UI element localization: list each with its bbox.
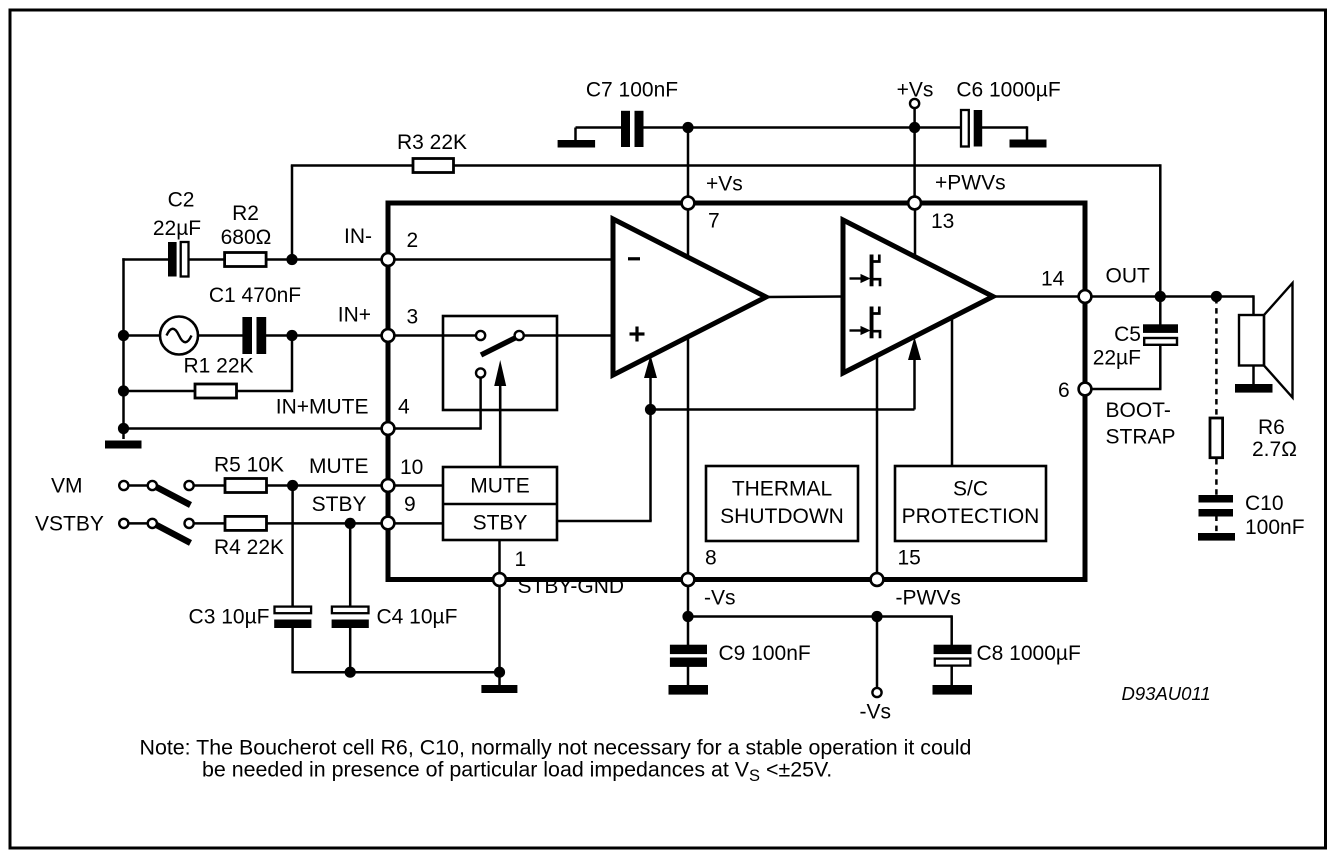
junction -Vs terminal node <box>871 611 882 622</box>
resistor R2 <box>225 253 267 267</box>
label C1 value <box>209 284 301 307</box>
junction MUTE node <box>287 480 298 491</box>
label IN- <box>344 225 372 248</box>
wire +Vs rail (C7 to C6) <box>643 126 963 129</box>
svg-text:Note: The Boucherot cell R6, C: Note: The Boucherot cell R6, C10, normal… <box>140 735 972 759</box>
speaker <box>1239 283 1293 398</box>
wire speaker to ground <box>1252 365 1255 385</box>
label R4 value <box>214 536 284 559</box>
svg-text:BOOT-: BOOT- <box>1106 399 1171 422</box>
svg-text:IN-: IN- <box>344 225 372 248</box>
capacitor C10 100nF <box>1199 495 1234 517</box>
wire dashed OUT to R6 <box>1215 298 1218 417</box>
wire power stage to S/C protection box <box>951 310 954 466</box>
capacitor C5 22uF <box>1143 324 1178 345</box>
ground C7 <box>558 140 596 148</box>
pin 6 <box>1079 383 1092 396</box>
svg-text:C10: C10 <box>1245 492 1284 515</box>
svg-text:STBY-GND: STBY-GND <box>518 575 625 598</box>
svg-text:SHUTDOWN: SHUTDOWN <box>720 505 844 528</box>
wire input bus vertical <box>122 258 125 439</box>
ground C8 <box>933 685 973 695</box>
svg-text:4: 4 <box>398 396 410 419</box>
resistor R1 <box>195 384 237 398</box>
terminal -Vs bottom <box>872 688 881 697</box>
svg-text:R5 10K: R5 10K <box>214 454 284 477</box>
label +PWVs <box>935 172 1006 195</box>
svg-text:C2: C2 <box>168 189 195 212</box>
wire VSTBY switch link <box>128 522 149 525</box>
pin 7 <box>682 197 695 210</box>
junction OUT boucherot <box>1211 291 1222 302</box>
svg-text:C3 10µF: C3 10µF <box>189 606 270 629</box>
wire C5 bootstrap branch <box>1085 343 1162 389</box>
label pin 7 <box>708 210 720 233</box>
capacitor C7 100nF <box>621 111 644 147</box>
label pin 2 <box>407 229 419 252</box>
label C9 value <box>719 642 811 665</box>
pin 1 <box>493 573 506 586</box>
IC U1 outline <box>388 203 1085 580</box>
junction bias node <box>645 404 656 415</box>
wire bus to generator <box>124 334 162 337</box>
label IN+MUTE <box>276 396 369 419</box>
svg-text:14: 14 <box>1041 268 1065 291</box>
label R3 value <box>397 131 467 154</box>
label -Vs terminal <box>860 701 892 724</box>
block THERMAL SHUTDOWN <box>706 466 858 541</box>
wire pin 8 to C9 <box>687 580 690 646</box>
svg-text:+Vs: +Vs <box>897 79 934 102</box>
svg-text:C7 100nF: C7 100nF <box>586 79 678 102</box>
switch VSTBY contacts <box>119 519 193 528</box>
wire C8 to ground <box>950 666 953 687</box>
svg-text:2.7Ω: 2.7Ω <box>1252 438 1297 461</box>
wire pin 7 to pin 8 vertical <box>687 128 690 580</box>
wire pin 13 into power stage <box>914 204 917 291</box>
junction IN- node <box>286 254 297 265</box>
svg-text:22µF: 22µF <box>1093 347 1141 370</box>
wire C6 to its ground <box>981 126 1027 141</box>
arrow bias into op-amp U1 <box>644 355 657 410</box>
junction C4 ground <box>345 667 356 678</box>
svg-text:8: 8 <box>705 547 717 570</box>
junction STBY node <box>345 518 356 529</box>
svg-text:STBY: STBY <box>473 512 528 535</box>
label VSTBY <box>35 513 104 536</box>
junction -Vs C9 <box>682 611 693 622</box>
svg-text:VSTBY: VSTBY <box>35 513 104 536</box>
capacitor C1 470nF <box>242 317 266 354</box>
junction IN+ node <box>286 330 297 341</box>
wire dashed C10 to ground <box>1215 516 1218 535</box>
label pin 14 <box>1041 268 1065 291</box>
svg-text:MUTE: MUTE <box>470 474 530 497</box>
pin 4 <box>382 422 395 435</box>
svg-text:MUTE: MUTE <box>309 455 369 478</box>
label pin 8 <box>705 547 717 570</box>
svg-text:S/C: S/C <box>953 478 988 501</box>
pin 10 <box>382 479 395 492</box>
switch VM contacts <box>119 481 193 490</box>
label S/C PROTECTION <box>902 478 1040 529</box>
svg-text:C4 10µF: C4 10µF <box>377 606 458 629</box>
capacitor C2 22uF <box>168 242 189 277</box>
label C7 value <box>586 79 678 102</box>
label pin 13 <box>931 210 954 233</box>
svg-text:R4 22K: R4 22K <box>214 536 284 559</box>
op-amp U1 input stage <box>613 219 766 375</box>
ground input <box>105 441 142 449</box>
label +Vs terminal <box>897 79 934 102</box>
wire bias to STBY box <box>557 408 652 521</box>
label C6 value <box>956 79 1060 102</box>
wire R3 to OUT node <box>454 164 1160 325</box>
svg-text:C8 1000µF: C8 1000µF <box>977 642 1081 665</box>
wire STBY box to pin 1 to ground <box>498 540 501 686</box>
svg-text:C5: C5 <box>1114 323 1141 346</box>
wire R5 to pin 10 <box>267 484 444 487</box>
label C2 value <box>153 189 201 241</box>
wire C7 ground to C7 left plate <box>576 128 623 141</box>
pin 3 <box>382 329 395 342</box>
svg-text:1: 1 <box>515 548 527 571</box>
junction +Vs C7 <box>682 122 693 133</box>
block S/C PROTECTION <box>895 466 1046 541</box>
wire MUTE box to switch arrow <box>499 388 502 467</box>
ground speaker <box>1235 384 1273 393</box>
svg-text:+PWVs: +PWVs <box>935 172 1006 195</box>
label STBY-GND <box>518 575 625 598</box>
label C10 value <box>1245 492 1305 539</box>
mute switch contact right <box>515 331 524 340</box>
pin 15 <box>871 573 884 586</box>
wire generator to C1 <box>198 334 243 337</box>
arrow mute drive <box>494 360 506 467</box>
svg-text:STRAP: STRAP <box>1106 426 1176 449</box>
op-amp U1 minus mark <box>628 257 640 260</box>
svg-text:-Vs: -Vs <box>704 587 736 610</box>
svg-text:13: 13 <box>931 210 954 233</box>
svg-text:C9 100nF: C9 100nF <box>719 642 811 665</box>
wire +Vs terminal to pin 13 <box>913 107 916 206</box>
wire R2 to pin 2 to op-amp U1 minus input <box>267 258 615 261</box>
wire C4 bottom <box>349 627 352 673</box>
junction bus generator <box>118 330 129 341</box>
note text <box>140 735 972 785</box>
ground C10 <box>1198 533 1235 541</box>
wire C9 to ground <box>687 666 690 687</box>
wire bus to C2 <box>122 258 168 261</box>
label C8 value <box>977 642 1081 665</box>
pin 9 <box>382 517 395 530</box>
switch VM lever <box>154 486 191 505</box>
label pin 1 <box>515 548 527 571</box>
wire VM switch link <box>128 484 149 487</box>
svg-text:15: 15 <box>898 547 921 570</box>
svg-text:THERMAL: THERMAL <box>732 478 832 501</box>
ground STBY-GND pin 1 <box>481 685 517 693</box>
svg-text:C6 1000µF: C6 1000µF <box>956 79 1060 102</box>
svg-text:be needed in presence of parti: be needed in presence of particular load… <box>202 758 832 786</box>
label -Vs pin8 <box>704 587 736 610</box>
label R5 value <box>214 454 284 477</box>
mute switch lever <box>481 336 519 355</box>
resistor R4 <box>225 516 267 530</box>
label MUTE pin <box>309 455 369 478</box>
label R1 value <box>184 355 254 378</box>
resistor R5 <box>225 479 267 493</box>
wire dashed R6 to C10 <box>1215 459 1218 496</box>
power stage U2 triangle <box>843 220 993 373</box>
svg-text:+Vs: +Vs <box>706 173 743 196</box>
label BOOT-STRAP <box>1106 399 1176 449</box>
svg-text:IN+MUTE: IN+MUTE <box>276 396 369 419</box>
label -PWVs <box>896 587 961 610</box>
wire VM switch to R5 <box>193 484 226 487</box>
svg-text:VM: VM <box>51 475 83 498</box>
pin 14 <box>1079 290 1092 303</box>
block MUTE/STBY <box>443 467 557 540</box>
capacitor C9 100nF <box>670 645 707 667</box>
wire op-amp U1 output to power stage input <box>766 295 843 298</box>
wire -Vs terminal drop <box>876 615 879 689</box>
wire STBY node to C4 <box>349 522 352 607</box>
wire R4 to pin 9 <box>267 522 444 525</box>
wire pin 14 to speaker <box>1085 295 1254 316</box>
pin 2 <box>382 253 395 266</box>
switch VSTBY lever <box>154 524 191 543</box>
pin 13 <box>908 197 921 210</box>
label C5 value <box>1093 323 1141 370</box>
wire R1 row <box>122 334 292 392</box>
pin 8 <box>682 573 695 586</box>
label R2 value <box>221 202 272 249</box>
wire power stage output to pin 14 <box>993 295 1085 298</box>
svg-text:2: 2 <box>407 229 419 252</box>
label IN+ <box>338 304 371 327</box>
wire C3 C4 ground run <box>293 671 500 674</box>
svg-text:D93AU011: D93AU011 <box>1122 683 1211 704</box>
label pin 15 <box>898 547 921 570</box>
svg-text:9: 9 <box>404 493 416 516</box>
label C3 value <box>189 606 270 629</box>
terminal +Vs <box>910 99 919 108</box>
svg-text:22µF: 22µF <box>153 217 201 240</box>
ground C9 <box>669 685 709 695</box>
label MUTE block <box>470 474 530 497</box>
arrow bias into power stage U2 <box>908 337 921 410</box>
capacitor C8 1000uF <box>934 645 972 666</box>
label OUT <box>1106 265 1151 288</box>
mute switch box <box>443 316 557 410</box>
svg-text:7: 7 <box>708 210 720 233</box>
svg-text:C1 470nF: C1 470nF <box>209 284 301 307</box>
junction +Vs terminal <box>909 122 920 133</box>
svg-text:-PWVs: -PWVs <box>896 587 961 610</box>
junction bus pin4 <box>118 423 129 434</box>
mute switch contact lower <box>476 368 485 377</box>
mute switch contact left <box>476 331 485 340</box>
svg-text:-Vs: -Vs <box>860 701 892 724</box>
label pin 4 <box>398 396 410 419</box>
svg-text:680Ω: 680Ω <box>221 226 272 249</box>
wire IN+MUTE row pin 4 <box>122 372 480 430</box>
svg-text:10: 10 <box>400 456 423 479</box>
label D93AU011 <box>1122 683 1211 704</box>
svg-text:6: 6 <box>1058 379 1070 402</box>
label pin 10 <box>400 456 423 479</box>
wire switch to op-amp U1 plus input <box>519 334 614 337</box>
label pin 6 <box>1058 379 1070 402</box>
wire C3 bottom <box>291 627 294 673</box>
resistor R6 <box>1210 418 1223 458</box>
svg-text:3: 3 <box>407 306 419 329</box>
transistor M1 (upper mosfet glyph) <box>850 255 881 287</box>
capacitor C4 10uF <box>332 607 369 628</box>
junction pin1 ground <box>494 667 505 678</box>
wire MUTE node to C3 <box>291 484 294 607</box>
wire node IN- to R3 <box>291 166 412 259</box>
capacitor C3 10uF <box>274 607 311 628</box>
svg-text:R3 22K: R3 22K <box>397 131 467 154</box>
svg-text:R6: R6 <box>1258 416 1285 439</box>
wire bias run under op-amps <box>651 408 915 411</box>
signal generator <box>160 317 198 355</box>
svg-text:100nF: 100nF <box>1245 516 1305 539</box>
capacitor C6 1000uF <box>961 110 982 147</box>
label VM <box>51 475 83 498</box>
wire VSTBY switch to R4 <box>193 522 226 525</box>
svg-text:R2: R2 <box>232 202 259 225</box>
wire -Vs rail <box>688 615 952 645</box>
label R6 value <box>1252 416 1297 461</box>
label THERMAL SHUTDOWN <box>720 478 844 529</box>
wire power stage to pin 15 <box>876 345 879 580</box>
label C4 value <box>377 606 458 629</box>
svg-text:IN+: IN+ <box>338 304 371 327</box>
wire C1 to pin 3 to switch <box>266 334 481 337</box>
label STBY block <box>473 512 528 535</box>
label +Vs pin7 <box>706 173 743 196</box>
resistor R3 <box>413 159 454 173</box>
op-amp U1 plus mark <box>630 327 645 342</box>
svg-text:STBY: STBY <box>312 493 367 516</box>
label pin 9 <box>404 493 416 516</box>
svg-text:R1 22K: R1 22K <box>184 355 254 378</box>
svg-text:OUT: OUT <box>1106 265 1151 288</box>
svg-text:PROTECTION: PROTECTION <box>902 505 1040 528</box>
transistor M2 (lower mosfet glyph) <box>850 307 881 339</box>
label STBY pin <box>312 493 367 516</box>
junction bus R1 <box>118 385 129 396</box>
label pin 3 <box>407 306 419 329</box>
wire C2 to R2 <box>189 258 226 261</box>
junction OUT C5 <box>1155 291 1166 302</box>
ground C6 <box>1010 140 1047 148</box>
